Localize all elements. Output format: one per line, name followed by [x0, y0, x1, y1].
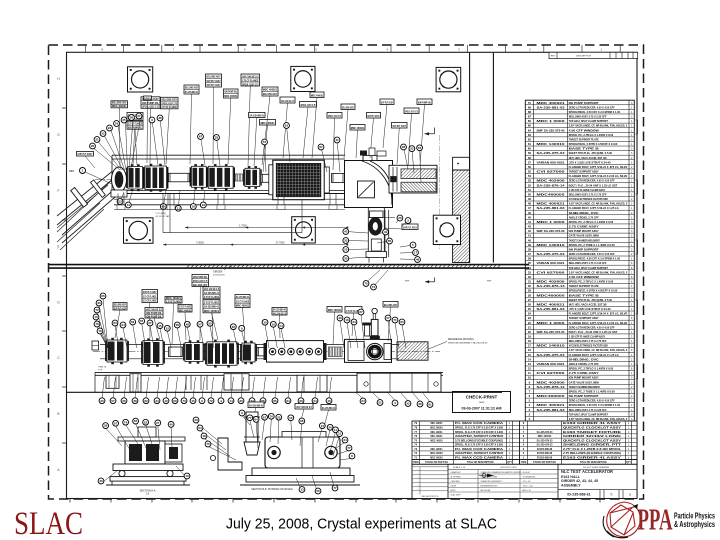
svg-text:SUP PLT ASSY: SUP PLT ASSY	[78, 152, 93, 156]
svg-text:MDC 140010: MDC 140010	[537, 345, 566, 348]
svg-text:ZERO LGTH REDUCER, 4.50 X 4.50: ZERO LGTH REDUCER, 4.50 X 4.50 CFF	[569, 106, 615, 109]
svg-text:MDC400000: MDC400000	[537, 395, 566, 398]
svg-text:DRAWN BY: DRAWN BY	[451, 471, 462, 474]
svg-text:ION PUMP 20L: ION PUMP 20L	[418, 101, 432, 105]
svg-text:SHIELDING ASSEMBLY SA-235-878-: SHIELDING ASSEMBLY SA-235-878-00	[448, 341, 488, 344]
svg-text:MDC 400021: MDC 400021	[537, 404, 566, 407]
svg-text:BELLOWS ASSY: BELLOWS ASSY	[114, 303, 126, 307]
svg-text:44: 44	[384, 230, 388, 234]
svg-text:MDC 400021: MDC 400021	[311, 94, 324, 98]
svg-text:MDC 140010: MDC 140010	[537, 244, 566, 247]
svg-text:67: 67	[528, 115, 532, 119]
svg-text:67: 67	[319, 145, 323, 149]
quad M2	[142, 338, 164, 366]
valve cluster M1	[106, 338, 128, 364]
svg-text:CHECK-PRINT: CHECK-PRINT	[466, 395, 498, 400]
spool S3	[332, 174, 345, 183]
svg-text:ADAPTER, SUBOUT C/INTER: ADAPTER, SUBOUT C/INTER	[455, 435, 503, 438]
svg-text:64: 64	[254, 418, 258, 422]
svg-text:18: 18	[528, 339, 532, 343]
svg-text:13: 13	[127, 203, 131, 207]
svg-text:MDC 400000: MDC 400000	[538, 435, 552, 438]
svg-text:30: 30	[99, 479, 103, 483]
svg-text:DESCRIPTION: DESCRIPTION	[576, 56, 591, 58]
svg-text:NLC TEST ACCELERATOR: NLC TEST ACCELERATOR	[561, 469, 613, 474]
svg-text:SUP PLT ASSY: SUP PLT ASSY	[367, 114, 379, 118]
svg-text:SA-235-880-41: SA-235-880-41	[236, 295, 250, 299]
svg-text:SA-235-881-03: SA-235-881-03	[537, 207, 566, 210]
svg-text:15: 15	[263, 320, 267, 324]
svg-text:2.50" VACFLANGE, CF, NR BLANK,: 2.50" VACFLANGE, CF, NR BLANK, FXN, HOLE…	[569, 271, 628, 274]
svg-text:13: 13	[300, 488, 304, 492]
svg-text:ION PUMP 20L: ION PUMP 20L	[142, 101, 159, 105]
svg-text:2.75 CF FLANGE: 2.75 CF FLANGE	[179, 305, 191, 309]
svg-text:SA-235-880-41: SA-235-880-41	[322, 406, 336, 410]
svg-text:22: 22	[410, 147, 414, 151]
svg-text:64: 64	[286, 399, 290, 403]
svg-text:54: 54	[528, 174, 532, 178]
svg-text:SUP PLT ASSY: SUP PLT ASSY	[206, 83, 220, 87]
svg-text:CVI 927000: CVI 927000	[537, 171, 566, 174]
svg-text:2.50" VACFLANGE, CF, NR BLANK,: 2.50" VACFLANGE, CF, NR BLANK, FXN, HOLE…	[569, 418, 628, 421]
svg-text:13: 13	[321, 424, 325, 428]
svg-text:TOP HALF, SPLIT CLAMP SUPPORT: TOP HALF, SPLIT CLAMP SUPPORT	[569, 413, 609, 416]
svg-text:SA-235-881-03: SA-235-881-03	[537, 409, 566, 412]
svg-text:57: 57	[114, 421, 118, 425]
svg-text:REV: REV	[551, 56, 556, 58]
svg-text:41: 41	[335, 138, 339, 142]
svg-text:2.75 CF FLANGE: 2.75 CF FLANGE	[162, 105, 178, 109]
spool S2	[261, 174, 272, 182]
reference drawing note	[429, 338, 489, 349]
svg-text:MDC 400021: MDC 400021	[537, 102, 566, 105]
svg-text:20: 20	[91, 144, 95, 148]
svg-text:67: 67	[263, 140, 267, 144]
svg-text:60: 60	[528, 147, 532, 151]
flange plate F3	[436, 67, 461, 91]
svg-text:SHIELDING GIRDER, PTT: SHIELDING GIRDER, PTT	[563, 444, 622, 447]
svg-text:SPOOL PC, 2.75FLG X 1.40FB X 8: SPOOL PC, 2.75FLG X 1.40FB X 8.50	[569, 281, 614, 284]
flange plate F1	[128, 67, 153, 92]
svg-text:CVI 927000: CVI 927000	[537, 271, 566, 274]
svg-text:43: 43	[528, 225, 532, 229]
svg-text:74: 74	[124, 420, 128, 424]
svg-text:REF: REF	[69, 169, 75, 173]
svg-text:QUICKFLG CLOCKLGT ASSY: QUICKFLG CLOCKLGT ASSY	[563, 439, 622, 442]
svg-text:TARGET CHAMBER WELDMENT: TARGET CHAMBER WELDMENT	[569, 386, 600, 389]
svg-text:FLANGED BOLT, 12PT, 5/16-24 X: FLANGED BOLT, 12PT, 5/16-24 X 2.00 LG, S…	[569, 322, 628, 325]
svg-text:TOP HALF, SPLIT CLAMP SUPPORT: TOP HALF, SPLIT CLAMP SUPPORT	[569, 267, 609, 270]
svg-text:NUT, HEX, VACU ACCEL SST 3/8: NUT, HEX, VACU ACCEL SST 3/8	[569, 303, 607, 306]
svg-text:BELLOWS ASSY: BELLOWS ASSY	[263, 92, 277, 96]
svg-text:65: 65	[273, 399, 277, 403]
svg-text:20: 20	[100, 399, 104, 403]
flange detail F4	[124, 218, 154, 244]
svg-text:DSGN: DSGN	[451, 486, 457, 488]
svg-text:PPA: PPA	[638, 502, 673, 537]
svg-text:TARGET SUPPORT PLATE: TARGET SUPPORT PLATE	[569, 285, 599, 288]
svg-text:65: 65	[528, 124, 532, 128]
svg-text:56: 56	[316, 489, 320, 493]
target chamber M10	[345, 339, 392, 362]
svg-text:75: 75	[206, 442, 210, 446]
svg-text:MDC400000: MDC400000	[537, 193, 566, 196]
svg-text:22: 22	[101, 132, 105, 136]
svg-text:TYP: TYP	[98, 370, 103, 372]
svg-text:63: 63	[113, 321, 117, 325]
svg-text:33: 33	[239, 399, 243, 403]
svg-text:54: 54	[279, 324, 283, 328]
svg-text:MDC 9000X: MDC 9000X	[430, 427, 443, 429]
svg-text:EVO50-888-88: EVO50-888-88	[537, 449, 553, 451]
diagonal beam pipe entering from lower left	[57, 172, 122, 251]
svg-text:MDC 400021: MDC 400021	[224, 94, 237, 98]
svg-text:GATE VALVE ASSY, MINI: GATE VALVE ASSY, MINI	[569, 235, 599, 238]
flange plate F2	[291, 66, 315, 91]
svg-text:FLANGED BOLT, 12PT, 5/16-24 X: FLANGED BOLT, 12PT, 5/16-24 X 2.00 LG, S…	[569, 175, 628, 178]
svg-text:SPOOL ASSY 2.75: SPOOL ASSY 2.75	[142, 105, 159, 109]
svg-text:2.75 BELLOWS (FLEXIBLE COUPLIN: 2.75 BELLOWS (FLEXIBLE COUPLING)	[563, 452, 621, 455]
svg-text:17: 17	[528, 344, 532, 348]
svg-text:SA-235-880-41: SA-235-880-41	[250, 114, 265, 118]
svg-text:SHEET TPO PLIG, .250 QUML X 5.: SHEET TPO PLIG, .250 QUML X 5.00	[569, 152, 613, 155]
svg-text:16: 16	[528, 348, 532, 352]
svg-text:SPOOL, FLG 2.75 CFF X 3.50 CFF: SPOOL, FLG 2.75 CFF X 3.50 CFF X 3.000	[455, 426, 504, 429]
svg-text:31: 31	[528, 280, 532, 284]
svg-text:E163 GIRDER 41 ASSY: E163 GIRDER 41 ASSY	[563, 456, 622, 459]
svg-text:SUP PLT ASSY: SUP PLT ASSY	[381, 101, 393, 105]
spectrometer magnet	[269, 160, 330, 200]
svg-text:63: 63	[528, 133, 532, 137]
svg-text:MDC 400021: MDC 400021	[328, 308, 342, 312]
svg-text:2 150 CFF FLANGE CLAMP ASSY: 2 150 CFF FLANGE CLAMP ASSY	[569, 336, 606, 339]
svg-text:MDL 99001: MDL 99001	[431, 432, 444, 434]
svg-text:CHECKED: CHECKED	[451, 481, 461, 483]
svg-text:28: 28	[528, 293, 532, 297]
beam dump absorber	[389, 165, 437, 193]
svg-text:SPOOL ASSY 2.75: SPOOL ASSY 2.75	[405, 110, 419, 114]
svg-text:52: 52	[528, 183, 532, 187]
svg-text:4.50" VACFLANGE, CF, NR BLANK,: 4.50" VACFLANGE, CF, NR BLANK, FXN, HOLE…	[569, 203, 628, 206]
svg-text:58: 58	[528, 156, 532, 160]
svg-text:MDC400000: MDC400000	[537, 294, 566, 297]
svg-text:27: 27	[528, 298, 532, 302]
svg-text:REF: REF	[405, 281, 410, 283]
svg-text:15: 15	[528, 353, 532, 357]
svg-text:2 150 CFF FLANGE CLAMP ASSY: 2 150 CFF FLANGE CLAMP ASSY	[569, 189, 606, 192]
svg-text:GIRDER 42, 43, 44, 45: GIRDER 42, 43, 44, 45	[561, 479, 598, 483]
svg-text:REF: REF	[487, 281, 492, 283]
svg-text:QTY: QTY	[626, 462, 631, 464]
svg-text:68: 68	[528, 110, 532, 114]
svg-text:BOLT / FLG , 20-24 UNF X 1.25: BOLT / FLG , 20-24 UNF X 1.25 LG SST	[569, 184, 618, 187]
svg-text:24: 24	[361, 399, 365, 403]
svg-text:SECTION A-A: SECTION A-A	[140, 489, 156, 492]
svg-text:new: new	[479, 400, 485, 404]
svg-text:SUP PLT ASSY: SUP PLT ASSY	[392, 124, 406, 128]
svg-text:57: 57	[111, 399, 115, 403]
svg-text:36: 36	[418, 402, 422, 406]
svg-text:VARIAN 900-0021: VARIAN 900-0021	[537, 363, 566, 366]
svg-text:BELLOWS ASSY 2.75 X 2.33 CFF: BELLOWS ASSY 2.75 X 2.33 CFF	[569, 262, 607, 265]
svg-text:10: 10	[272, 322, 276, 326]
svg-text:SHIELDING, OVC: SHIELDING, OVC	[569, 212, 599, 215]
svg-text:25: 25	[122, 118, 126, 122]
svg-text:MDC 400021: MDC 400021	[204, 309, 220, 313]
svg-text:10: 10	[528, 376, 532, 380]
quad doublet Q1	[144, 164, 168, 192]
svg-text:76: 76	[95, 322, 99, 326]
svg-text:15: 15	[158, 324, 162, 328]
svg-text:SPOOLPIECE, 4.50 CFF X 2.0 EPD: SPOOLPIECE, 4.50 CFF X 2.0 EPDM X 1.00	[569, 258, 621, 261]
svg-text:MDC 9000X: MDC 9000X	[430, 453, 443, 455]
floor line top view	[49, 264, 529, 268]
beam direction arrow	[425, 128, 435, 136]
svg-text:36: 36	[528, 257, 532, 261]
PPA logo	[603, 502, 715, 538]
vertical dump line with ion pump	[366, 208, 395, 263]
left frame bracket mid view	[92, 341, 99, 350]
svg-text:61: 61	[528, 142, 532, 146]
svg-text:46: 46	[338, 316, 342, 320]
svg-text:—: —	[417, 493, 419, 495]
svg-text:July 25, 2008, Crystal experim: July 25, 2008, Crystal experiments at SL…	[226, 517, 497, 533]
svg-text:BASE TYPE B: BASE TYPE B	[569, 148, 599, 151]
spool M7	[257, 347, 266, 356]
svg-text:19: 19	[192, 205, 196, 209]
svg-text:50: 50	[418, 146, 422, 150]
svg-text:37: 37	[528, 252, 532, 256]
svg-text:SUP PLT ASSY: SUP PLT ASSY	[403, 226, 417, 230]
svg-text:ITEM: ITEM	[521, 462, 527, 464]
svg-text:MDC 400021: MDC 400021	[351, 126, 365, 130]
svg-text:55: 55	[140, 319, 144, 323]
svg-text:ION PUMP 20L: ION PUMP 20L	[224, 90, 237, 94]
svg-text:ENGINEERING DIV: ENGINEERING DIV	[481, 486, 499, 488]
svg-text:QTY: QTY	[507, 462, 512, 464]
svg-text:FLANGED BOLT, 12PT, 5/16-24 X: FLANGED BOLT, 12PT, 5/16-24 X 1.25 LG	[569, 354, 619, 357]
svg-text:26: 26	[122, 399, 126, 403]
pedestal P1	[130, 374, 141, 392]
svg-text:27: 27	[359, 310, 363, 314]
zone tick marks and numerals	[57, 45, 620, 503]
svg-text:38: 38	[133, 399, 137, 403]
svg-text:ION PUMP MOUNT ASSY: ION PUMP MOUNT ASSY	[569, 377, 599, 380]
svg-text:2.75 CF FLANGE: 2.75 CF FLANGE	[143, 294, 157, 298]
svg-text:42/43/44/45: 42/43/44/45	[213, 275, 225, 277]
svg-text:44: 44	[528, 220, 532, 224]
svg-text:APPD: APPD	[451, 489, 457, 492]
svg-text:MDC 403000: MDC 403000	[537, 381, 566, 384]
svg-text:SA-235-876-33: SA-235-876-33	[537, 444, 553, 447]
svg-text:12: 12	[164, 399, 168, 403]
svg-text:15: 15	[191, 399, 195, 403]
svg-text:56: 56	[528, 165, 532, 169]
svg-text:TITLE OR DESCRIPTION: TITLE OR DESCRIPTION	[580, 462, 607, 464]
svg-text:52: 52	[406, 402, 410, 406]
svg-text:74: 74	[372, 285, 376, 289]
svg-text:10: 10	[185, 474, 189, 478]
svg-text:REFERENCE DRAWING: REFERENCE DRAWING	[448, 338, 474, 341]
svg-text:7.0000: 7.0000	[196, 241, 204, 244]
svg-text:41: 41	[528, 234, 532, 238]
floor-mount balloons above mid view	[363, 270, 492, 290]
svg-text:BELLOWS ASSY 2.75 X 2.75 CFF: BELLOWS ASSY 2.75 X 2.75 CFF	[569, 340, 607, 343]
svg-text:2.75 (REF): 2.75 (REF)	[156, 213, 167, 215]
svg-text:32: 32	[528, 275, 532, 279]
svg-text:SA-235-375-04: SA-235-375-04	[537, 354, 566, 357]
svg-text:M. PETREE: M. PETREE	[451, 477, 462, 479]
balloons mid view	[93, 293, 433, 407]
svg-text:58: 58	[176, 323, 180, 327]
beam axis top view	[95, 179, 392, 181]
support legs and dimensions top view	[156, 194, 349, 246]
svg-text:VAC VALVE 2.5: VAC VALVE 2.5	[273, 311, 287, 315]
balloons top view	[90, 113, 423, 262]
svg-text:MDC 140010: MDC 140010	[537, 143, 566, 146]
svg-text:27: 27	[137, 114, 141, 118]
svg-text:54: 54	[198, 426, 202, 430]
svg-text:SPOOL ASSY 2.75: SPOOL ASSY 2.75	[193, 279, 208, 283]
svg-text:39: 39	[528, 243, 532, 247]
svg-text:BELLOWS ASSY 2.75 X 2.75 CFF: BELLOWS ASSY 2.75 X 2.75 CFF	[569, 193, 607, 196]
parts list BOM table	[525, 100, 637, 421]
svg-text:F: F	[58, 189, 60, 193]
svg-text:ANGLE CROSS, 2.75 CFF: ANGLE CROSS, 2.75 CFF	[569, 363, 599, 366]
svg-text:MDL 99001: MDL 99001	[431, 436, 444, 438]
svg-text:.375 X 1.625 LIVE STRUT X 24-4: .375 X 1.625 LIVE STRUT X 24-40	[569, 161, 611, 164]
svg-text:TARGET SUPPORT ASSY: TARGET SUPPORT ASSY	[569, 317, 599, 320]
svg-text:69: 69	[528, 105, 532, 109]
vacuum tee at pipe junction	[111, 167, 127, 197]
svg-text:BH PUMP SUPPORT: BH PUMP SUPPORT	[569, 102, 600, 105]
svg-text:48: 48	[528, 202, 532, 206]
svg-text:24: 24	[528, 312, 532, 316]
svg-text:3.75 BELLOWS (FLEXIBLE COUPLIN: 3.75 BELLOWS (FLEXIBLE COUPLING)	[455, 439, 503, 442]
svg-text:75: 75	[364, 282, 368, 286]
svg-text:25: 25	[528, 307, 532, 311]
title block	[412, 464, 637, 498]
svg-text:ANG ± 30: ANG ± 30	[523, 489, 531, 492]
svg-text:E: E	[57, 245, 59, 249]
svg-text:BELLOWS ASSY: BELLOWS ASSY	[162, 97, 178, 101]
svg-text:BELLOWS ASSY: BELLOWS ASSY	[384, 303, 397, 307]
svg-text:14: 14	[528, 357, 532, 361]
svg-text:77: 77	[333, 486, 337, 490]
svg-text:2.75 CF FLANGE: 2.75 CF FLANGE	[204, 295, 219, 299]
svg-text:ITEM 78: ITEM 78	[98, 367, 107, 369]
svg-text:17.7500: 17.7500	[275, 241, 285, 244]
svg-text:TARGET SUPPORT ASSY: TARGET SUPPORT ASSY	[569, 171, 599, 174]
svg-text:49: 49	[528, 197, 532, 201]
shielding wall column	[453, 157, 470, 262]
svg-text:BASE TYPE B: BASE TYPE B	[569, 294, 599, 297]
bend chamber	[345, 156, 393, 208]
svg-text:EVO50-888-88: EVO50-888-88	[537, 453, 553, 455]
svg-text:16: 16	[285, 124, 289, 128]
svg-text:MDL 99001: MDL 99001	[431, 423, 444, 425]
svg-text:CVI 927000: CVI 927000	[537, 372, 566, 375]
svg-text:19: 19	[528, 335, 532, 339]
svg-text:VARIAN 900-0021: VARIAN 900-0021	[537, 262, 566, 265]
svg-text:34: 34	[155, 399, 159, 403]
svg-text:BELLOWS ASSY: BELLOWS ASSY	[112, 101, 127, 105]
svg-text:MDC 40003: MDC 40003	[430, 439, 443, 442]
svg-text:SA-235-880-41: SA-235-880-41	[204, 305, 219, 309]
svg-text:ION PUMP MOUNT ASSY: ION PUMP MOUNT ASSY	[569, 230, 599, 233]
svg-text:SHIELDING, OVC: SHIELDING, OVC	[569, 358, 599, 361]
svg-text:2.75 CF FLANGE: 2.75 CF FLANGE	[143, 299, 157, 303]
svg-text:VARIAN 900-0021: VARIAN 900-0021	[537, 161, 566, 164]
svg-text:P.I. MAX CCD CAMERA: P.I. MAX CCD CAMERA	[455, 456, 503, 459]
svg-text:BELLOWS ASSY 2.75 X 2.33 CFF: BELLOWS ASSY 2.75 X 2.33 CFF	[569, 409, 607, 412]
svg-text:36: 36	[158, 116, 162, 120]
svg-text:SLAC DEPT: SLAC DEPT	[451, 494, 462, 497]
svg-text:30: 30	[97, 301, 101, 305]
svg-text:65: 65	[162, 205, 166, 209]
svg-text:4.50" VACFLANGE, CF, NR BLANK,: 4.50" VACFLANGE, CF, NR BLANK, FXN, HOLE…	[569, 349, 628, 352]
svg-text:SHEET TPO PLIG, .250 QUML X 5.: SHEET TPO PLIG, .250 QUML X 5.00	[569, 299, 613, 302]
svg-text:XYCOM ELECTRONICS FACTORY BSD: XYCOM ELECTRONICS FACTORY BSD	[569, 198, 608, 201]
floor line mid view	[67, 391, 503, 393]
svg-text:FLANGED BOLT, 12PT, 5/16-24 X: FLANGED BOLT, 12PT, 5/16-24 X .875 LG, S…	[569, 313, 628, 316]
svg-text:SPOOL ASSY 2.75: SPOOL ASSY 2.75	[242, 82, 259, 86]
ported chamber M8	[264, 341, 327, 363]
svg-text:23: 23	[108, 126, 112, 130]
svg-text:BELLOWS ASSY: BELLOWS ASSY	[342, 106, 354, 110]
support rail mid view	[95, 372, 443, 392]
middle assembly view	[67, 266, 503, 407]
dump axis centerline	[438, 135, 440, 250]
vertical actuator on target chamber	[363, 308, 380, 339]
svg-text:51: 51	[378, 401, 382, 405]
svg-text:MDC 400021: MDC 400021	[179, 308, 192, 312]
label boxes mid view	[113, 275, 398, 346]
svg-text:ASSEMBLY: ASSEMBLY	[561, 484, 581, 488]
svg-text:BELLOWS ASSY: BELLOWS ASSY	[206, 75, 220, 79]
svg-text:SPOOLPIECE, 0.50TB X 4.50CFF X: SPOOLPIECE, 0.50TB X 4.50CFF X 10.00	[569, 290, 618, 293]
svg-text:60: 60	[400, 320, 404, 324]
svg-text:VAC VALVE 2.5: VAC VALVE 2.5	[204, 287, 219, 291]
svg-text:15: 15	[166, 326, 170, 330]
svg-text:SA-235-881-03: SA-235-881-03	[537, 308, 566, 311]
svg-text:REV HISTORY PG: REV HISTORY PG	[422, 496, 439, 498]
svg-text:54: 54	[313, 399, 317, 403]
svg-text:61: 61	[428, 403, 432, 407]
pedestal P2	[224, 374, 249, 390]
svg-text:67: 67	[199, 135, 203, 139]
svg-text:2.75 CF FLANGE: 2.75 CF FLANGE	[166, 299, 181, 303]
svg-text:MDC 1 0000: MDC 1 0000	[537, 221, 566, 224]
svg-text:68: 68	[300, 419, 304, 423]
svg-text:SA-235-876-14: SA-235-876-14	[537, 386, 566, 389]
svg-text:SPOOL PC, 2.75FLG X 1.40FB X 6: SPOOL PC, 2.75FLG X 1.40FB X 6.50	[569, 368, 614, 371]
svg-text:34: 34	[352, 320, 356, 324]
svg-text:57: 57	[528, 160, 532, 164]
svg-text:SLAC: SLAC	[14, 506, 83, 540]
svg-text:.XX ± .03: .XX ± .03	[523, 481, 531, 483]
svg-text:E163 GIRDER 41 ASSY: E163 GIRDER 41 ASSY	[563, 422, 622, 425]
svg-text:ORIG APPD DATE: ORIG APPD DATE	[500, 466, 517, 469]
gate valve V1	[127, 164, 144, 191]
svg-text:19: 19	[202, 203, 206, 207]
svg-text:SA-235-880-41: SA-235-880-41	[204, 291, 219, 295]
support frame under top beamline	[114, 194, 345, 210]
svg-text:46: 46	[528, 211, 532, 215]
svg-text:ION PUMP 20L: ION PUMP 20L	[146, 311, 162, 315]
svg-text:GIRDER 42/43/2 LONG: GIRDER 42/43/2 LONG	[563, 435, 621, 438]
svg-text:SPOOLPIECE, 4.50 CFF X 2.0 EPD: SPOOLPIECE, 4.50 CFF X 2.0 EPDM X 1.00	[569, 404, 621, 407]
